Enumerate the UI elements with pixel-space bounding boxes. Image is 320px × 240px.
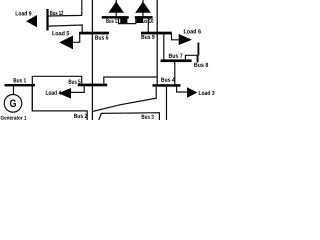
wire bus7 to bus4: [174, 62, 176, 84]
wire bus5 to load4: [71, 86, 84, 92]
wire load6 down to bus8: [197, 43, 199, 56]
label Bus 1: [14, 78, 27, 82]
bus 1 bar: [5, 84, 36, 86]
generator G1 circle: [4, 95, 22, 113]
bus 12 bar: [46, 9, 48, 31]
bus 11 bar: [102, 16, 129, 19]
bus 10 bar: [135, 16, 153, 19]
label Load 4: [46, 90, 61, 94]
label Bus 3: [142, 115, 154, 119]
generator G11 triangle: [108, 2, 124, 13]
wire bus12 top line to top edge: [49, 0, 82, 16]
label Bus 8: [194, 63, 208, 67]
bus 11 breaker box: [120, 17, 127, 24]
bus 3 box outline: [99, 113, 160, 120]
wire bus1 down to bus2: [32, 86, 87, 120]
load L3 triangle: [187, 87, 197, 97]
wire bus9 to load6: [172, 34, 179, 40]
wire load5 to bus6: [73, 32, 80, 42]
wire bus12 lower line to bus6: [49, 25, 83, 32]
wire bus4 to load3: [177, 87, 187, 92]
label Bus 11: [106, 19, 119, 23]
label Generator 1: [1, 116, 27, 120]
wire long vertical x92.4: [91, 0, 93, 120]
load L9 triangle: [26, 15, 37, 27]
generator G10 triangle: [135, 2, 151, 13]
label Load 3: [199, 91, 215, 95]
label Bus 10: [139, 19, 153, 23]
generator stem: [13, 86, 15, 95]
bus 8 jumper: [185, 55, 197, 59]
label Bus 5: [69, 80, 81, 84]
wire bus5 to bus4: [104, 77, 157, 84]
load L4 triangle: [58, 88, 71, 99]
wire bus10 to bus9: [147, 19, 149, 32]
generator G11 stem: [115, 0, 117, 17]
tie bus11-bus10: [119, 19, 136, 24]
bus 7 bar: [161, 59, 192, 62]
label Bus 7: [169, 54, 183, 58]
generator G10 stem: [142, 0, 144, 17]
label Bus 12: [50, 11, 63, 15]
bus 6 bar: [79, 32, 109, 35]
bus 5 bar: [78, 84, 108, 87]
label Bus 6: [95, 35, 108, 39]
load L5 triangle: [59, 36, 73, 50]
wire long vertical x157.2 to bus4: [156, 0, 158, 84]
label Load 5: [52, 31, 69, 35]
label Bus 9: [141, 35, 154, 39]
bus 8 stub bar: [197, 55, 199, 62]
wire bus1 up to bus5: [32, 76, 81, 111]
label Load 6: [184, 29, 201, 33]
label Bus 4: [161, 78, 175, 82]
bus 4 bar: [153, 84, 181, 87]
generator G1 letter: [10, 99, 16, 107]
load L6 triangle: [179, 34, 192, 45]
wire diagonal bus2 area to bus4: [92, 87, 156, 112]
label Load 9: [16, 11, 32, 15]
wire bus9 to bus7: [163, 34, 165, 59]
bus 10 breaker box: [136, 18, 143, 23]
label Bus 2: [74, 114, 87, 118]
bus 9 bar: [141, 32, 172, 35]
wire bus4 down to bottom edge: [166, 87, 168, 120]
